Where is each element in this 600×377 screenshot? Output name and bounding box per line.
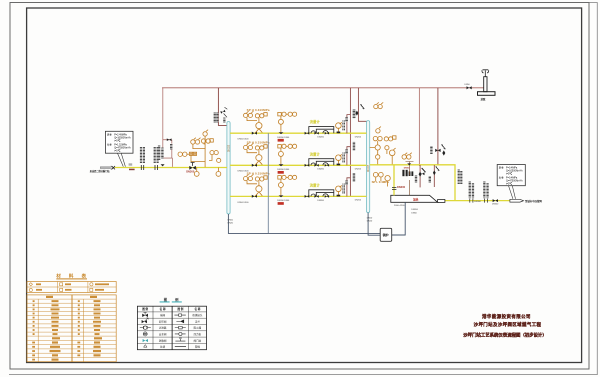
heater feed fittings [402, 170, 404, 176]
svg-text:沙坪门站及沙坪阀区域燃气工程: 沙坪门站及沙坪阀区域燃气工程 [474, 321, 542, 328]
outlet arrow [510, 199, 524, 202]
manifold 2 [367, 121, 370, 213]
inlet instrument cluster (orange) [178, 130, 221, 177]
svg-text:锅炉: 锅炉 [383, 232, 389, 237]
svg-text:夏季: 夏季 [107, 132, 112, 136]
main inlet line [115, 167, 228, 169]
design parameter callout 2 [497, 165, 525, 199]
manifold 1 [227, 122, 230, 215]
ESD valve on main line [189, 163, 196, 170]
row 1 equipment [238, 108, 362, 141]
svg-text:DN50: DN50 [411, 212, 417, 214]
svg-text:绝缘接头: 绝缘接头 [192, 313, 203, 317]
svg-text:调节阀: 调节阀 [159, 319, 167, 323]
heater inlet valves (black) [409, 168, 426, 176]
svg-text:名 称: 名 称 [160, 307, 166, 311]
vent riser to manifold 1 [218, 88, 227, 126]
legend table [137, 306, 206, 350]
outlet pipe rotated tags B [483, 181, 488, 202]
svg-text:管线: 管线 [195, 345, 201, 349]
svg-text:DN20: DN20 [367, 221, 373, 223]
svg-text:DN50: DN50 [465, 84, 471, 86]
svg-text:t=5℃: t=5℃ [506, 172, 512, 175]
labels at manifold1 vent riser [214, 113, 216, 123]
svg-text:法兰: 法兰 [195, 319, 201, 323]
svg-text:DN200: DN200 [411, 209, 418, 211]
outlet riser tag [458, 169, 460, 184]
svg-text:压力表: 压力表 [194, 332, 202, 336]
heater feed flanges [392, 188, 396, 190]
svg-text:至城市中压管网: 至城市中压管网 [525, 199, 542, 203]
svg-text:DN300: DN300 [492, 203, 499, 205]
svg-text:t=5℃: t=5℃ [114, 149, 120, 152]
outlet block valve [493, 199, 498, 202]
PSV valves on purge riser [355, 104, 364, 115]
row 3 equipment [238, 171, 362, 204]
design parameter callout 1 [105, 131, 133, 166]
svg-text:放散阀: 放散阀 [159, 338, 167, 342]
N2 inject valve cluster [430, 144, 445, 155]
inlet closed valve X [112, 166, 115, 169]
inlet arrow [100, 166, 114, 169]
boiler circuit to heater [392, 202, 406, 235]
svg-text:DN50: DN50 [367, 218, 373, 220]
row 2 line [230, 164, 367, 166]
svg-text:t=5℃: t=5℃ [506, 182, 512, 185]
material table header box [27, 282, 116, 293]
svg-text:冬季: 冬季 [107, 142, 112, 146]
boiler box [380, 228, 392, 241]
insulating joint 2 with tags [154, 147, 159, 171]
svg-text:阀门井: 阀门井 [194, 338, 202, 342]
svg-text:图 例: 图 例 [177, 307, 183, 311]
svg-text:DN20: DN20 [228, 222, 234, 224]
svg-text:t=5℃: t=5℃ [114, 139, 120, 142]
svg-text:放散: 放散 [480, 97, 486, 101]
vent riser mid [418, 88, 420, 166]
svg-text:冬季: 冬季 [499, 175, 504, 179]
insulating joint 1 with tags [140, 147, 145, 170]
row 2 equipment [238, 140, 362, 173]
fuel gas line from manifold1 [228, 214, 380, 233]
vent stack [478, 70, 496, 101]
yellow drop to heater [393, 165, 395, 196]
vent riser with N2 valve [437, 88, 439, 165]
material table grid [27, 295, 116, 362]
heater [391, 195, 445, 202]
svg-text:图 例: 图 例 [142, 307, 148, 311]
fuel gas line from manifold2 [368, 213, 380, 236]
slate instrument header [267, 133, 269, 233]
outlet header line [370, 165, 510, 201]
svg-text:阻火器: 阻火器 [194, 326, 202, 330]
vent tie-in fitting [161, 164, 165, 166]
svg-text:丝堵: 丝堵 [160, 345, 166, 349]
svg-text:球阀: 球阀 [160, 313, 166, 317]
purge riser to manifold 2 [358, 88, 366, 122]
svg-text:图例: 图例 [164, 297, 187, 302]
header block valve [467, 86, 472, 89]
svg-text:DN300: DN300 [397, 185, 406, 189]
svg-text:夏季: 夏季 [499, 165, 504, 169]
outlet pipe rotated tags A [469, 181, 474, 202]
svg-text:DN325: DN325 [228, 144, 230, 152]
svg-text:SP L 0.4MPa: SP L 0.4MPa [372, 180, 389, 184]
vent header (red) [162, 87, 484, 89]
outlet regulator cluster (orange) [373, 172, 390, 186]
heater bypass valve (maroon) [415, 165, 426, 187]
regulator skid cluster right of manifold2 (orange) [370, 102, 412, 164]
svg-text:沙坪门站工艺系统仪表流程图（初步设计）: 沙坪门站工艺系统仪表流程图（初步设计） [463, 331, 546, 338]
small labels near inlet [129, 164, 133, 166]
svg-text:DN300: DN300 [474, 201, 481, 203]
svg-text:DN50: DN50 [404, 168, 410, 170]
N2 below-line valve cluster (maroon) [429, 165, 440, 187]
svg-text:过滤器: 过滤器 [159, 326, 167, 330]
svg-text:安全阀: 安全阀 [159, 332, 167, 336]
svg-text:DN300: DN300 [186, 169, 195, 173]
svg-text:加热: 加热 [412, 197, 419, 201]
row 1 line [230, 132, 367, 134]
svg-text:港华能源投资有限公司: 港华能源投资有限公司 [482, 313, 531, 320]
svg-text:名 称: 名 称 [194, 307, 200, 311]
svg-text:2000×1200: 2000×1200 [394, 204, 405, 207]
row 3 line [230, 195, 367, 197]
PSV collect riser [349, 88, 351, 197]
svg-text:DN50: DN50 [228, 219, 234, 221]
vent riser from inlet area [163, 88, 173, 167]
